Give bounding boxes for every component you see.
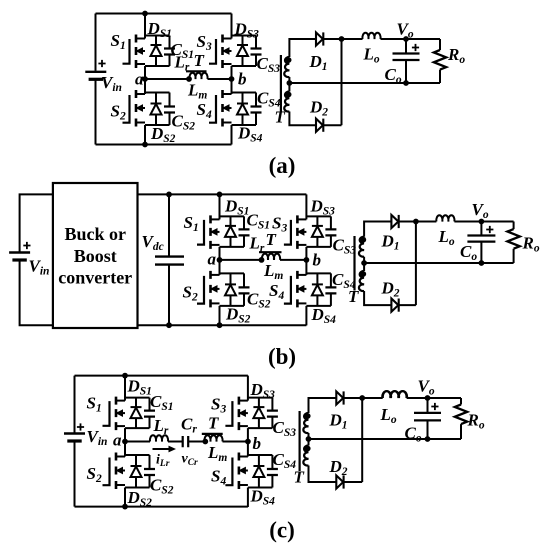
wire bottom rail (c)	[75, 506, 248, 508]
wire top rail (a)	[96, 13, 232, 15]
transformer T secondary core (b)	[353, 236, 355, 291]
svg-text:T: T	[294, 468, 305, 487]
svg-text:Vo: Vo	[397, 20, 414, 41]
wire winding lower to D2 (c)	[309, 433, 337, 482]
transformer secondary winding lower (a)	[284, 92, 289, 112]
svg-text:DS2: DS2	[127, 488, 153, 509]
svg-text:S1: S1	[87, 394, 102, 415]
svg-text:DS4: DS4	[250, 487, 276, 508]
svg-text:DS3: DS3	[310, 197, 336, 218]
svg-text:Boost: Boost	[74, 246, 117, 266]
wire Lo to Vo node (a)	[381, 38, 441, 40]
svg-text:a: a	[135, 70, 144, 89]
wire D1 junction down to D2 (c)	[361, 398, 363, 482]
svg-text:a: a	[113, 431, 122, 450]
transformer secondary winding lower (c)	[303, 446, 308, 466]
svg-text:b: b	[238, 70, 247, 89]
battery Vin (a)	[85, 72, 106, 80]
wire top rail (c)	[75, 375, 248, 377]
node Vo (b)	[479, 219, 485, 225]
junction Co bottom (a)	[403, 80, 409, 86]
wire a to Lr (c)	[125, 441, 150, 443]
node a (c)	[122, 439, 128, 445]
transistor S3 (b)	[284, 194, 337, 260]
node b (c)	[245, 439, 251, 445]
capacitor Co (b)	[480, 222, 482, 264]
diode D1 (c)	[336, 391, 343, 404]
transistor S1 (c)	[103, 376, 156, 442]
inductor Lo (a)	[362, 33, 380, 39]
svg-text:CS1: CS1	[247, 211, 271, 232]
node Vo (c)	[425, 395, 431, 401]
svg-text:Lr: Lr	[153, 416, 169, 437]
svg-text:Vin: Vin	[101, 73, 122, 94]
wire a to b (b)	[220, 259, 307, 261]
svg-text:vCr: vCr	[182, 452, 199, 469]
svg-text:S4: S4	[211, 467, 226, 488]
resistor Ro (a)	[439, 39, 441, 83]
svg-text:Lm: Lm	[263, 261, 283, 282]
junction Co bottom (c)	[425, 436, 431, 442]
inductor Lr (c)	[150, 435, 168, 441]
svg-text:iLr: iLr	[156, 453, 170, 470]
svg-text:CS3: CS3	[273, 418, 297, 439]
transistor S1 (a)	[123, 14, 176, 80]
resistor Ro (b)	[513, 222, 515, 264]
node a (b)	[217, 257, 223, 263]
capacitor Co (c)	[427, 398, 429, 439]
svg-text:Cr: Cr	[181, 415, 197, 436]
svg-text:S4: S4	[197, 100, 212, 121]
svg-text:T: T	[266, 230, 277, 249]
transformer T secondary core (a)	[280, 55, 282, 112]
wire D1 junction down to D2 (a)	[341, 39, 343, 125]
capacitor Cr (c)	[183, 436, 189, 447]
wire winding top to D1 (c)	[309, 398, 337, 413]
svg-text:D1: D1	[381, 232, 400, 253]
inductor Lm transformer T primary (b)	[262, 254, 280, 260]
svg-text:Vo: Vo	[472, 200, 489, 221]
wire left rail (c)	[74, 376, 76, 507]
svg-text:DS1: DS1	[147, 19, 172, 40]
svg-text:DS3: DS3	[250, 380, 276, 401]
wire box to bridge bottom rail (b)	[138, 324, 307, 326]
svg-text:DS1: DS1	[127, 377, 152, 398]
diode D1 (b)	[391, 215, 398, 228]
transistor S2 (a)	[123, 79, 176, 145]
wire winding lower to D2 (b)	[364, 257, 391, 305]
transistor S3 (a)	[209, 14, 262, 80]
node a (a)	[142, 76, 148, 82]
junction top rail (c)	[122, 373, 128, 379]
wire box to bridge top rail (b)	[138, 193, 307, 195]
svg-text:Vin: Vin	[87, 427, 108, 448]
svg-text:D1: D1	[329, 411, 348, 432]
junction D1 cathode (b)	[413, 219, 419, 225]
diode D2 (c)	[336, 475, 343, 488]
inductor Lo (c)	[383, 391, 407, 398]
wire Lr to Cr (c)	[168, 441, 183, 443]
wire D1 to Lo (b)	[399, 221, 437, 223]
node b (a)	[229, 76, 235, 82]
node b (b)	[304, 257, 310, 263]
wire winding top to D1 (a)	[289, 39, 316, 57]
svg-text:Lo: Lo	[380, 405, 397, 426]
block buck or boost converter (b)	[53, 183, 138, 328]
transformer secondary winding lower (b)	[359, 271, 364, 291]
svg-text:D2: D2	[329, 457, 348, 478]
svg-text:Lo: Lo	[438, 227, 455, 248]
transformer secondary winding upper (c)	[303, 413, 308, 433]
svg-text:CS3: CS3	[257, 54, 281, 75]
svg-text:CS2: CS2	[172, 112, 196, 133]
transformer T secondary core (c)	[299, 411, 301, 471]
diode D2 (a)	[316, 119, 323, 132]
wire D2 to junction (b)	[399, 304, 416, 306]
svg-text:b: b	[313, 251, 322, 270]
wire Lo to Vo node (b)	[454, 221, 513, 223]
svg-text:S1: S1	[184, 213, 199, 234]
svg-text:S2: S2	[111, 102, 126, 123]
svg-text:T: T	[348, 287, 359, 306]
battery Vin (c)	[64, 434, 85, 442]
diode D2 (b)	[391, 299, 398, 312]
svg-text:T: T	[194, 51, 205, 70]
junction center tap (a)	[287, 80, 293, 86]
svg-text:a: a	[208, 250, 217, 269]
wire Cr to Lm (c)	[188, 441, 204, 443]
svg-text:S3: S3	[197, 32, 212, 53]
inductor Lo (b)	[436, 215, 454, 221]
junction bottom rail (a)	[142, 142, 148, 148]
svg-text:DS4: DS4	[237, 124, 263, 145]
wire battery to box top (b)	[20, 194, 53, 252]
node Vo (a)	[403, 36, 409, 42]
inductor Lm transformer T primary (c)	[204, 435, 222, 441]
svg-text:D2: D2	[309, 98, 328, 119]
wire output bottom (c)	[309, 438, 462, 440]
svg-text:(b): (b)	[268, 344, 296, 369]
capacitor Vdc (b)	[168, 194, 170, 325]
resistor Ro (c)	[460, 398, 462, 439]
capacitor Co (a)	[405, 39, 407, 83]
wire D1 to Lo (c)	[344, 397, 383, 399]
transformer secondary winding upper (a)	[284, 57, 289, 77]
svg-text:Co: Co	[460, 242, 477, 263]
junction Co bottom (b)	[479, 260, 485, 266]
transistor S4 (c)	[225, 442, 278, 508]
wire battery to box bottom (b)	[20, 262, 53, 326]
inductor Lm transformer T primary (a)	[189, 73, 207, 79]
junction Vdc top (b)	[166, 192, 172, 198]
svg-text:Vo: Vo	[418, 377, 435, 398]
svg-text:converter: converter	[58, 268, 132, 288]
svg-text:Co: Co	[405, 424, 422, 445]
wire D1 to Lo (a)	[323, 38, 362, 40]
svg-text:b: b	[253, 434, 262, 453]
wire output bottom (b)	[364, 262, 513, 264]
svg-text:(a): (a)	[269, 153, 296, 178]
svg-text:S2: S2	[87, 464, 102, 485]
transistor S3 (c)	[225, 376, 278, 442]
svg-text:DS3: DS3	[234, 20, 260, 41]
junction bottom rail (c)	[122, 504, 128, 510]
transistor S4 (a)	[209, 79, 262, 145]
transformer secondary winding upper (b)	[359, 237, 364, 257]
svg-text:CS2: CS2	[247, 290, 271, 311]
svg-text:Lo: Lo	[363, 45, 380, 66]
wire winding lower to D2 (a)	[289, 77, 316, 125]
wire Lm to b (c)	[223, 441, 248, 443]
svg-text:S2: S2	[183, 283, 198, 304]
junction center tap (b)	[361, 260, 367, 266]
svg-text:Lm: Lm	[207, 443, 227, 464]
wire left rail (a)	[95, 14, 97, 145]
transistor S4 (b)	[284, 260, 337, 326]
svg-text:Lr: Lr	[249, 234, 265, 255]
svg-text:CS4: CS4	[257, 89, 281, 110]
junction D1 cathode (c)	[359, 395, 365, 401]
junction S2 bottom (b)	[217, 322, 223, 328]
wire D1 junction down to D2 (b)	[415, 222, 417, 306]
wire D2 to junction (c)	[344, 481, 363, 483]
svg-text:Ro: Ro	[522, 234, 540, 255]
svg-text:S3: S3	[211, 395, 226, 416]
svg-text:Vin: Vin	[29, 257, 50, 278]
svg-text:Vdc: Vdc	[142, 232, 164, 253]
svg-text:Ro: Ro	[447, 45, 465, 66]
junction top rail (a)	[142, 11, 148, 17]
svg-text:S4: S4	[269, 281, 284, 302]
svg-text:T: T	[208, 414, 219, 433]
svg-text:CS2: CS2	[150, 476, 174, 497]
svg-text:DS4: DS4	[311, 305, 337, 326]
diode D1 (a)	[316, 32, 323, 45]
svg-text:Ro: Ro	[467, 411, 485, 432]
svg-text:D1: D1	[309, 52, 328, 73]
svg-text:Buck or: Buck or	[64, 224, 126, 244]
transistor S2 (c)	[103, 442, 156, 508]
svg-text:S1: S1	[111, 31, 126, 52]
current arrow iLr (c)	[153, 448, 171, 450]
transistor S2 (b)	[197, 260, 250, 326]
svg-text:CS3: CS3	[333, 236, 357, 257]
transistor S1 (b)	[197, 194, 250, 260]
junction D1 cathode (a)	[339, 36, 345, 42]
battery Vin (b)	[9, 253, 30, 261]
junction S1 top (b)	[217, 192, 223, 198]
wire D2 to junction (a)	[323, 124, 341, 126]
wire Lo to Vo node (c)	[407, 397, 461, 399]
wire winding top to D1 (b)	[364, 222, 391, 237]
svg-text:(c): (c)	[269, 518, 295, 543]
junction Vdc bottom (b)	[166, 322, 172, 328]
wire bottom rail (a)	[96, 144, 232, 146]
svg-text:D2: D2	[381, 279, 400, 300]
junction center tap (c)	[306, 436, 312, 442]
wire a to b (a)	[145, 78, 232, 80]
svg-text:Lm: Lm	[187, 81, 207, 102]
wire output bottom (a)	[289, 82, 440, 84]
svg-text:CS1: CS1	[150, 392, 174, 413]
